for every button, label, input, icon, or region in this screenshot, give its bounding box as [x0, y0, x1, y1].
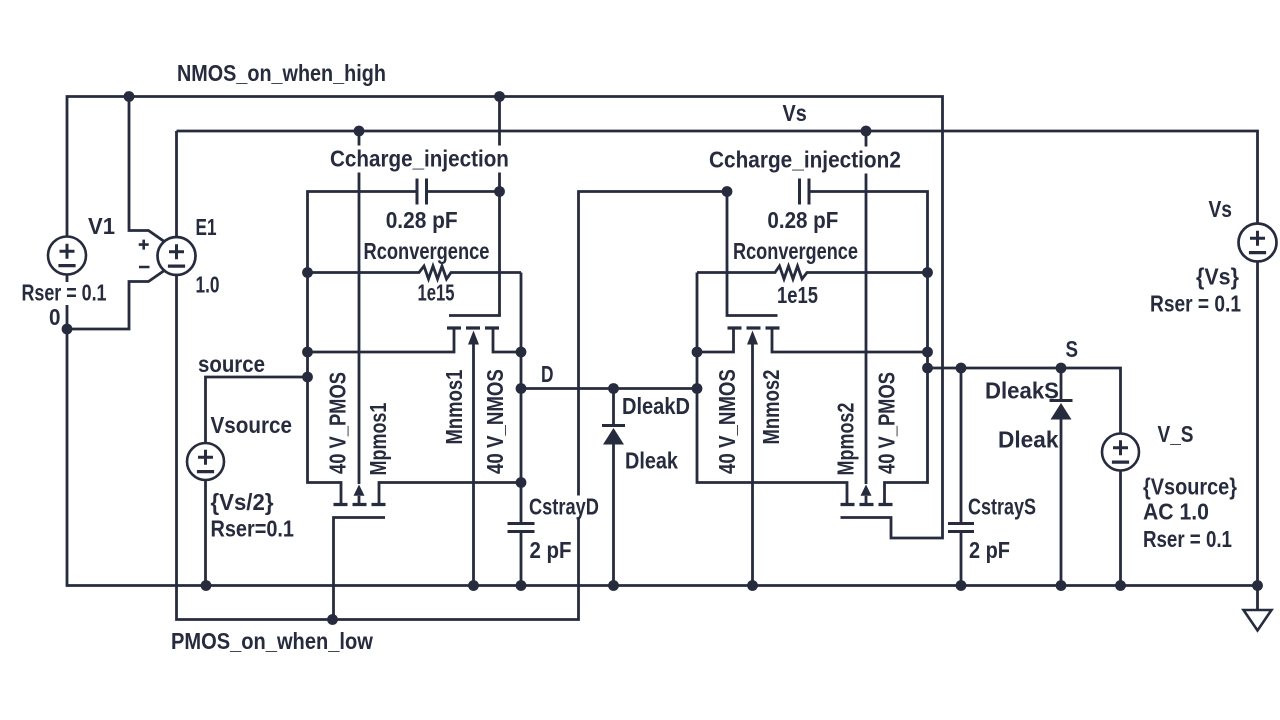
transistor Mnmos2 bulk arrow [747, 331, 758, 345]
node junction DleakD top [608, 383, 619, 394]
voltage source Vs [1239, 224, 1277, 262]
wire NMOS2 right (source) lead [772, 328, 928, 352]
svg-text:CstrayS: CstrayS [968, 494, 1036, 520]
svg-text:Vs: Vs [1209, 196, 1233, 222]
rail junction Vsource [201, 580, 212, 591]
svg-text:Vsource: Vsource [211, 412, 292, 439]
svg-text:Rser=0.1: Rser=0.1 [211, 515, 294, 542]
svg-text:source: source [198, 351, 265, 378]
wire Ccharge_injection right lead [427, 190, 500, 193]
wire node 0 to E1 control - input [67, 271, 164, 329]
wire Vs top rail + right drop to Vs source [177, 131, 1258, 224]
svg-text:Mpmos2: Mpmos2 [833, 403, 859, 476]
diode DleakS cathode bar [1050, 399, 1073, 402]
wire PMOS1 bulk tail from Vs rail [358, 131, 361, 484]
wire E1 output top lead to Vs rail [175, 131, 178, 238]
node junction Ccharge_injection2 left [722, 186, 733, 197]
svg-text:Rser = 0.1: Rser = 0.1 [1150, 291, 1241, 317]
node 0 junction [62, 324, 73, 335]
node junction DleakS top [1056, 363, 1067, 374]
svg-text:CstrayD: CstrayD [529, 494, 599, 520]
node junction source wire [302, 372, 313, 383]
wire NMOS2 gate riser + gate poly [727, 192, 778, 316]
node junction PMOS1 gate/PMOS_on_when_low [327, 614, 338, 625]
svg-text:1.0: 1.0 [196, 272, 220, 298]
wire D node horizontal [521, 387, 697, 390]
label mask Ccharge_injection [327, 146, 513, 173]
diode DleakD cathode bar [602, 424, 625, 427]
rail junction NMOS2 bulk [747, 580, 758, 591]
transistor Mnmos2 channel bar [728, 326, 780, 329]
svg-text:40 V_NMOS: 40 V_NMOS [483, 369, 508, 474]
node junction wire1/E1+ [124, 91, 135, 102]
svg-text:Mnmos2: Mnmos2 [759, 370, 785, 445]
svg-text:Rser = 0.1: Rser = 0.1 [22, 280, 107, 306]
label mask Ccharge_injection2 [706, 147, 905, 174]
svg-text:Dleak: Dleak [998, 426, 1059, 452]
wire NMOS1 left (source) lead [308, 328, 455, 352]
capacitor CstrayD [508, 524, 535, 532]
svg-text:0.28 pF: 0.28 pF [767, 207, 838, 234]
svg-text:{Vsource}: {Vsource} [1143, 473, 1237, 500]
node junction Vs/PMOS2 bulk [861, 126, 872, 137]
rail junction DleakS [1056, 580, 1067, 591]
svg-text:Vs: Vs [783, 99, 807, 126]
svg-text:{Vs}: {Vs} [1196, 264, 1239, 290]
rail junction V_S [1115, 580, 1126, 591]
rail junction CstrayS [956, 580, 967, 591]
node junction S wire start [922, 363, 933, 374]
wire CstrayS top lead [960, 368, 963, 524]
wire NMOS1 gate riser + gate poly [449, 97, 500, 316]
svg-text:2 pF: 2 pF [969, 536, 1010, 563]
wire PMOS1 right (drain) lead [379, 483, 521, 505]
svg-text:Ccharge_injection: Ccharge_injection [330, 145, 509, 172]
label mask Rser V1 [20, 282, 110, 305]
rail junction NMOS1 bulk [468, 580, 479, 591]
node junction PMOS1 drain [516, 477, 527, 488]
svg-text:DleakD: DleakD [622, 392, 690, 419]
capacitor Ccharge_injection2 C2 [800, 179, 810, 205]
svg-text:Rconvergence: Rconvergence [733, 239, 858, 265]
rail junction DleakD [608, 580, 619, 591]
svg-text:Rconvergence: Rconvergence [364, 239, 490, 265]
wire PMOS2 bulk arrow stub [865, 496, 868, 505]
node junction D wire start [516, 383, 527, 394]
svg-text:Mnmos1: Mnmos1 [442, 369, 468, 444]
node junction NMOS2 drain [692, 347, 703, 358]
wire Vsource bottom lead [204, 479, 207, 586]
wire PMOS1 gate poly + drop to PMOS_on_when_low [334, 518, 386, 620]
svg-text:{Vs/2}: {Vs/2} [211, 488, 274, 515]
node junction Ccharge_injection right [494, 186, 505, 197]
wire DleakD bottom lead [612, 445, 615, 586]
svg-text:Mpmos1: Mpmos1 [366, 402, 392, 475]
wire NMOS1 bulk tail to ground rail [472, 342, 475, 586]
transistor Mpmos2 channel bar [841, 503, 893, 506]
dependent source E1 control polarity marks [139, 240, 150, 267]
rail junction ground [1252, 580, 1263, 591]
wire E1 control + input from NMOS_on_when_high [129, 97, 164, 242]
transistor Mnmos1 bulk arrow [468, 331, 479, 345]
svg-text:0.28 pF: 0.28 pF [386, 207, 458, 233]
label mask CstrayD [526, 496, 602, 519]
node junction R2 right [922, 267, 933, 278]
svg-text:1e15: 1e15 [418, 281, 455, 306]
svg-text:1e15: 1e15 [777, 283, 818, 309]
wire D node vertical upper [520, 273, 523, 524]
svg-text:Ccharge_injection2: Ccharge_injection2 [709, 146, 901, 172]
svg-text:Dleak: Dleak [625, 447, 679, 474]
voltage source V_S [1102, 434, 1139, 471]
voltage source V1 [48, 237, 86, 275]
wire S node horizontal + drop to V_S [928, 368, 1121, 434]
transistor Mpmos1 bulk arrow [354, 485, 365, 496]
node junction NMOS2 source [922, 347, 933, 358]
wire V_S bottom lead [1119, 470, 1122, 586]
node junction CstrayS top [956, 363, 967, 374]
wire CstrayD bottom lead [520, 532, 523, 586]
rail junction CstrayD [516, 580, 527, 591]
wire CstrayS bottom lead [960, 532, 963, 586]
wire PMOS1 bulk arrow stub [358, 496, 361, 505]
wire PMOS2 bulk tail from Vs rail [865, 131, 868, 484]
transistor Mpmos2 bulk arrow [861, 485, 872, 496]
wire NMOS_on_when_high (top rail) + V1 top lead + PMOS2 gate route [67, 97, 943, 539]
transistor Mpmos1 channel bar [334, 503, 386, 506]
svg-text:40 V_PMOS: 40 V_PMOS [325, 372, 351, 474]
node junction D wire end [692, 383, 703, 394]
diode DleakD triangle [603, 428, 624, 445]
capacitor Ccharge_injection C1 [417, 179, 427, 205]
wire Ccharge_injection2 right lead + switch2 S-side vertical + PMOS2 right lead [809, 192, 928, 505]
node junction Vs/PMOS1 bulk [354, 126, 365, 137]
capacitor CstrayS [948, 524, 974, 532]
wire Vs source bottom lead to ground [1256, 261, 1259, 610]
svg-text:NMOS_on_when_high: NMOS_on_when_high [177, 59, 386, 86]
svg-text:V1: V1 [88, 212, 115, 239]
svg-text:40 V_NMOS: 40 V_NMOS [715, 369, 740, 474]
svg-text:PMOS_on_when_low: PMOS_on_when_low [171, 627, 374, 654]
wire NMOS2 left (drain) lead [697, 328, 734, 352]
wire NMOS1 right (drain) lead [493, 328, 521, 352]
wire NMOS2 bulk tail to ground rail [751, 342, 754, 586]
svg-text:0: 0 [49, 304, 60, 331]
wire source label net to Vsource top [206, 377, 308, 444]
svg-text:V_S: V_S [1158, 421, 1194, 447]
svg-text:AC 1.0: AC 1.0 [1143, 499, 1209, 525]
wire V1 minus / node 0 + ground rail [67, 274, 1258, 586]
svg-text:DleakS: DleakS [985, 377, 1059, 404]
svg-text:S: S [1066, 336, 1078, 363]
wire switch2 D-side vertical + PMOS2 left lead [697, 273, 847, 505]
node junction NMOS1 drain [516, 347, 527, 358]
wire source node vertical + Ccharge_injection left lead + PMOS1 source lead [308, 192, 418, 505]
node junction R1 left [302, 267, 313, 278]
wire DleakS top lead [1060, 368, 1063, 401]
node junction NMOS1 source [302, 347, 313, 358]
svg-text:2 pF: 2 pF [530, 537, 572, 564]
svg-text:Rser = 0.1: Rser = 0.1 [1143, 526, 1232, 553]
diode DleakS triangle [1051, 403, 1072, 420]
wire E1 bottom + PMOS_on_when_low rail + riser to NMOS2 gate lead [177, 192, 728, 620]
resistor Rconvergence R1 zigzag [308, 266, 522, 279]
wire DleakD top lead [612, 389, 615, 426]
node junction wire1/NMOS1 gate [494, 91, 505, 102]
dependent source E1 [158, 237, 196, 275]
transistor Mnmos1 channel bar [447, 326, 499, 329]
wire DleakS bottom lead [1060, 420, 1063, 586]
ground [1244, 610, 1272, 631]
svg-text:D: D [541, 362, 554, 388]
svg-text:E1: E1 [196, 214, 217, 240]
resistor Rconvergence R2 zigzag [697, 266, 928, 279]
svg-text:40 V_PMOS: 40 V_PMOS [874, 372, 900, 474]
voltage source Vsource [187, 443, 224, 480]
